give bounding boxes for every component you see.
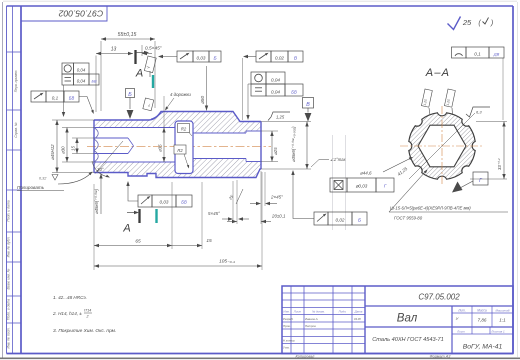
svg-text:У: У	[456, 316, 459, 321]
composite tolerance frame left	[62, 63, 99, 117]
spline designation with GOST	[389, 170, 508, 221]
svg-text:0,03: 0,03	[160, 200, 169, 205]
svg-text:4 дорожки: 4 дорожки	[170, 92, 191, 97]
svg-text:Петров: Петров	[305, 324, 316, 328]
svg-text:⌀0,03: ⌀0,03	[356, 184, 368, 189]
dimension 65 and 15	[94, 182, 212, 270]
svg-text:0,1: 0,1	[52, 96, 59, 101]
teal tick bottom	[155, 209, 157, 223]
dimension d30	[61, 128, 95, 163]
svg-text:1,25: 1,25	[423, 99, 428, 106]
svg-text:С97.05.002: С97.05.002	[418, 293, 460, 302]
svg-text:Масса: Масса	[477, 309, 487, 313]
section width dimension 33	[470, 122, 507, 180]
dimension 105	[94, 172, 262, 270]
svg-text:2: 2	[86, 315, 89, 319]
svg-text:1,25: 1,25	[276, 115, 285, 120]
chamfer note 0.5x45	[142, 45, 162, 56]
svg-text:15: 15	[71, 146, 76, 151]
svg-text:ГОСТ 9559-80: ГОСТ 9559-80	[394, 216, 423, 221]
svg-text:1,25: 1,25	[446, 99, 451, 106]
svg-text:15: 15	[206, 238, 212, 244]
svg-text:0,32: 0,32	[39, 177, 47, 181]
svg-text:Утв.: Утв.	[283, 346, 290, 350]
svg-text:Справ. №: Справ. №	[14, 122, 18, 138]
cross slot with R2	[175, 121, 193, 174]
socket chamfer line	[95, 141, 123, 174]
svg-text:⌀45к6(⁺⁰·⁰¹⁸): ⌀45к6(⁺⁰·⁰¹⁸)	[94, 188, 99, 214]
svg-text:Листов 1: Листов 1	[490, 329, 505, 333]
svg-text:⌀44,6: ⌀44,6	[360, 171, 372, 176]
faint construction verticals	[333, 135, 346, 230]
svg-text:Подп. и дата: Подп. и дата	[6, 200, 10, 221]
svg-text:1:1: 1:1	[499, 318, 506, 323]
svg-text:БВ: БВ	[181, 200, 187, 205]
diameter 44.6 leader	[360, 157, 413, 176]
svg-text:0,04: 0,04	[77, 68, 86, 73]
section roughness flags	[421, 89, 455, 115]
svg-text:⌀30: ⌀30	[61, 146, 66, 154]
svg-text:А: А	[122, 223, 130, 235]
svg-text:41,25: 41,25	[397, 166, 409, 177]
svg-text:Инв. № дубл.: Инв. № дубл.	[6, 237, 10, 258]
svg-text:R2: R2	[181, 127, 187, 132]
hex socket lines	[94, 138, 134, 154]
runout tolerance frame 0.1 BV	[31, 91, 94, 114]
svg-text:Б: Б	[358, 218, 361, 224]
dimension 41.25 across flats	[397, 166, 409, 177]
radius R2 upper	[178, 124, 193, 137]
svg-text:ВоГУ, МА-41: ВоГУ, МА-41	[463, 344, 503, 351]
svg-text:0,02: 0,02	[336, 218, 345, 223]
svg-text:0,04: 0,04	[271, 78, 280, 83]
svg-text:√: √	[146, 65, 152, 69]
extension lines right end	[261, 122, 311, 170]
frame strip labels	[6, 70, 17, 349]
svg-text:№ докум.: № докум.	[312, 310, 325, 314]
section cut mark A top	[135, 50, 149, 80]
shaft centerline	[87, 145, 271, 147]
svg-text:0,1: 0,1	[474, 52, 481, 57]
footer labels	[296, 354, 452, 358]
chamfer 2x45	[250, 172, 283, 206]
datum flag G	[452, 172, 488, 193]
shaft section hatching	[94, 112, 261, 178]
svg-text:33⁺⁰·²: 33⁺⁰·²	[497, 158, 502, 170]
svg-text:0,5×45°: 0,5×45°	[145, 46, 162, 52]
svg-text:Полировать: Полировать	[17, 185, 45, 190]
top-left inverted stamp C97.05.002	[21, 6, 107, 21]
roughness 0.32 with symbol	[39, 175, 58, 181]
note t1 max	[311, 157, 347, 167]
svg-text:Сталь 40ХН ГОСТ 4543-71: Сталь 40ХН ГОСТ 4543-71	[372, 337, 443, 343]
section label A-A	[425, 67, 450, 79]
section A-A centerlines	[400, 106, 484, 186]
shaft bore lines	[94, 128, 261, 163]
svg-text:⌀45H12: ⌀45H12	[50, 144, 55, 160]
svg-text:БВ: БВ	[91, 80, 96, 84]
title block grid	[282, 286, 513, 354]
svg-text:13: 13	[111, 47, 117, 53]
svg-text:⌀35: ⌀35	[158, 144, 163, 152]
svg-text:А–А: А–А	[425, 67, 450, 79]
svg-text:Разраб.: Разраб.	[283, 317, 294, 321]
chamfer 5x45	[208, 181, 249, 221]
runout tolerance frame 0.03 B	[158, 51, 221, 62]
svg-text:Б: Б	[128, 92, 132, 98]
section A-A body	[409, 113, 475, 179]
svg-text:R2: R2	[177, 148, 183, 153]
runout frame below shaft	[126, 181, 192, 207]
svg-text:): )	[490, 20, 493, 27]
svg-text:2×45°: 2×45°	[270, 195, 283, 200]
svg-text:√: √	[148, 103, 151, 108]
svg-text:5×45°: 5×45°	[208, 211, 220, 216]
svg-text:Пров.: Пров.	[283, 324, 291, 328]
svg-text:Формат А3: Формат А3	[430, 354, 452, 358]
svg-text:⌀25: ⌀25	[273, 147, 278, 155]
section cut mark A bottom	[122, 209, 139, 235]
shaft outline	[94, 112, 261, 178]
cone transition edge	[151, 112, 163, 119]
dimension d35k6	[291, 122, 309, 170]
svg-text:Копировал: Копировал	[296, 354, 316, 358]
svg-text:Вал: Вал	[397, 313, 418, 325]
svg-text:Подп. и дата: Подп. и дата	[6, 299, 10, 320]
technical requirements notes	[52, 295, 116, 334]
svg-text:⌀35к6(⁺⁰·⁰¹⁸₊₀.₀₀₂): ⌀35к6(⁺⁰·⁰¹⁸₊₀.₀₀₂)	[291, 126, 296, 162]
svg-text:Лист: Лист	[293, 310, 302, 314]
svg-text:25: 25	[462, 18, 472, 27]
svg-text:(: (	[478, 20, 481, 27]
svg-text:Масштаб: Масштаб	[495, 309, 509, 313]
break arcs in socket	[94, 128, 98, 163]
dimension d45H12	[50, 120, 94, 173]
svg-text:Перв. примен.: Перв. примен.	[14, 70, 18, 93]
svg-text:7,86: 7,86	[478, 318, 487, 323]
dimension 20±0.1	[227, 171, 286, 224]
svg-text:30°: 30°	[97, 167, 104, 172]
datum flag B on shoulder	[126, 89, 135, 120]
svg-text:В: В	[306, 102, 310, 108]
position tolerance frame	[330, 178, 394, 192]
svg-text:0,04: 0,04	[77, 79, 86, 84]
note 4 grooves	[165, 92, 191, 111]
svg-text:1. 42...48 HRCэ.: 1. 42...48 HRCэ.	[53, 295, 87, 300]
svg-text:Подп.: Подп.	[339, 310, 347, 314]
svg-text:БВ: БВ	[69, 96, 75, 101]
note polish	[17, 172, 93, 191]
svg-text:55±0,15: 55±0,15	[118, 32, 137, 38]
svg-text:6,3: 6,3	[476, 110, 482, 115]
datum flag V right	[303, 98, 314, 122]
svg-text:Взам. инв. №: Взам. инв. №	[6, 268, 10, 289]
svg-text:Ш-15-6Л×5(рв6Е-4)(ХЕ9РЛ-9ПВ-4П: Ш-15-6Л×5(рв6Е-4)(ХЕ9РЛ-9ПВ-4ПЕ мм)	[390, 206, 471, 211]
svg-text:IT14: IT14	[84, 309, 91, 313]
roughness 1.25 right	[268, 112, 290, 121]
svg-text:0,02: 0,02	[275, 56, 284, 61]
runout frame 0.02 B right	[291, 170, 367, 225]
svg-text:Инв. № подл.: Инв. № подл.	[6, 327, 10, 348]
dimension 13	[96, 47, 133, 113]
svg-text:Дата: Дата	[354, 310, 363, 314]
svg-text:20±0,1: 20±0,1	[271, 214, 286, 219]
svg-text:В: В	[294, 56, 298, 62]
svg-text:Н.контр.: Н.контр.	[283, 339, 295, 343]
svg-text:А: А	[135, 68, 143, 80]
svg-text:Г: Г	[384, 184, 387, 190]
svg-text:Изм.: Изм.	[283, 310, 289, 314]
title block texts	[283, 293, 510, 351]
svg-text:3. Покрытие Хим. Окс. прм.: 3. Покрытие Хим. Окс. прм.	[53, 328, 116, 334]
runout tolerance frame 0.02 V	[243, 51, 304, 120]
svg-text:ДВ: ДВ	[493, 52, 500, 57]
roughness flag on chamfer 2	[143, 98, 154, 111]
svg-text:⌀50: ⌀50	[200, 95, 206, 104]
svg-text:Б: Б	[213, 56, 216, 62]
composite tolerance frame right	[246, 72, 303, 120]
roughness flag on chamfer 1	[144, 56, 156, 77]
dimension 55±0.15	[101, 32, 155, 111]
svg-text:БВ: БВ	[291, 90, 297, 95]
svg-text:25: 25	[227, 193, 235, 201]
diameter 50 dimension	[200, 66, 208, 111]
general roughness mark 25	[448, 17, 494, 30]
angle 25 leader	[227, 189, 243, 204]
angle 30 deg	[92, 161, 110, 178]
svg-text:Лист: Лист	[456, 329, 465, 333]
svg-text:03.08: 03.08	[354, 317, 361, 321]
svg-text:Лит.: Лит.	[457, 309, 466, 313]
dimension d25 bore	[270, 131, 278, 162]
dimension d35 bore	[158, 96, 166, 162]
svg-text:0,03: 0,03	[197, 56, 206, 61]
svg-text:65: 65	[135, 239, 141, 245]
dimension 15 hex	[71, 138, 95, 154]
svg-text:С97.05.002: С97.05.002	[59, 8, 104, 18]
svg-text:2. H14, h14, ±: 2. H14, h14, ±	[52, 311, 82, 316]
radius R2 lower	[174, 145, 189, 169]
tolerance frame top right	[452, 47, 505, 120]
teal tick top	[152, 75, 154, 88]
svg-text:0,04: 0,04	[271, 90, 280, 95]
svg-text:105₋₀.₄: 105₋₀.₄	[219, 259, 235, 265]
section roughness 6.3	[466, 107, 490, 117]
section A-A outline	[409, 113, 475, 179]
svg-text:Иванов А.: Иванов А.	[305, 317, 319, 321]
dimension d45k6 lower	[94, 174, 103, 215]
